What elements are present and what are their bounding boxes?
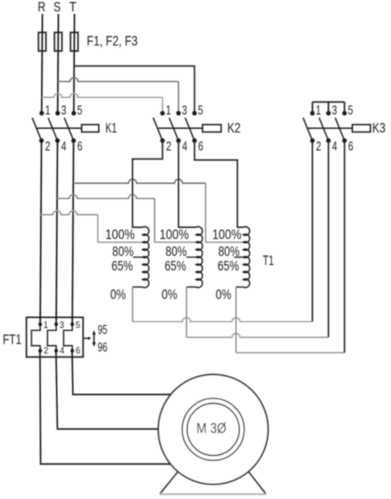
svg-text:3: 3	[182, 103, 187, 118]
svg-text:3: 3	[61, 103, 66, 118]
svg-text:0%: 0%	[216, 286, 232, 302]
svg-text:R: R	[38, 0, 46, 15]
svg-text:4: 4	[60, 345, 65, 355]
svg-text:5: 5	[348, 103, 353, 118]
svg-text:FT1: FT1	[3, 331, 22, 347]
svg-text:1: 1	[43, 320, 48, 330]
svg-text:5: 5	[76, 320, 81, 330]
svg-text:T1: T1	[263, 253, 274, 268]
svg-text:S: S	[54, 0, 61, 15]
svg-text:6: 6	[198, 138, 203, 153]
svg-text:65%: 65%	[218, 257, 239, 273]
svg-text:2: 2	[166, 138, 171, 153]
svg-text:2: 2	[45, 138, 50, 153]
svg-text:100%: 100%	[105, 226, 134, 242]
svg-text:0%: 0%	[162, 286, 178, 302]
svg-text:6: 6	[348, 138, 353, 153]
svg-text:100%: 100%	[160, 226, 189, 242]
svg-text:6: 6	[77, 138, 82, 153]
svg-text:6: 6	[76, 345, 81, 355]
svg-text:1: 1	[45, 103, 50, 118]
svg-text:4: 4	[61, 138, 66, 153]
svg-text:4: 4	[332, 138, 337, 153]
svg-text:5: 5	[77, 103, 82, 118]
svg-text:5: 5	[198, 103, 203, 118]
svg-text:0%: 0%	[110, 286, 126, 302]
svg-text:96: 96	[98, 340, 108, 354]
svg-text:M 3Ø: M 3Ø	[196, 420, 226, 437]
svg-text:4: 4	[182, 138, 187, 153]
svg-text:1: 1	[166, 103, 171, 118]
svg-text:K1: K1	[105, 119, 117, 135]
svg-text:K2: K2	[227, 119, 241, 135]
svg-text:100%: 100%	[212, 226, 241, 242]
svg-text:65%: 65%	[165, 257, 186, 273]
svg-text:K3: K3	[372, 119, 385, 135]
svg-text:65%: 65%	[112, 257, 133, 273]
svg-text:T: T	[69, 0, 76, 15]
svg-text:3: 3	[332, 103, 337, 118]
svg-text:2: 2	[316, 138, 321, 153]
svg-text:1: 1	[316, 103, 321, 118]
svg-text:F1, F2, F3: F1, F2, F3	[87, 33, 138, 49]
svg-text:95: 95	[98, 323, 108, 337]
svg-text:3: 3	[59, 320, 64, 330]
svg-text:2: 2	[44, 345, 49, 355]
